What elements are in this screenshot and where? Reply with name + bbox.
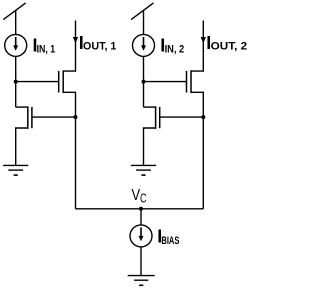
wire: I_IN,1 to lower transistor drain	[15, 56, 17, 107]
node A' dot	[142, 80, 146, 84]
current source I_IN,2 circle	[133, 34, 155, 56]
I_OUT,2 arrowhead	[201, 37, 206, 44]
node B dot	[74, 115, 78, 119]
ground (bottom) bar 2	[134, 279, 148, 281]
svg-text:BIAS: BIAS	[161, 235, 179, 247]
lower-right transistor gate bar	[159, 107, 161, 128]
ground (center) bar 1	[131, 164, 156, 166]
lower-left gate wire to node B	[32, 116, 76, 118]
I_IN,1 arrow tail	[15, 37, 17, 46]
lower-left transistor gate bar	[31, 107, 33, 128]
lower-left source jog down to ground	[16, 128, 28, 165]
ground (left) bar 1	[3, 164, 28, 166]
ground (center) bar 2	[136, 169, 151, 171]
lower-left transistor channel bar	[27, 106, 29, 129]
upper-left source jog + wire down to Vc bus	[63, 92, 75, 209]
I_BIAS arrow tail	[140, 227, 142, 236]
ground (left) bar 2	[8, 169, 23, 171]
I_IN,1 arrowhead	[13, 45, 18, 50]
upper-right drain jog + wire up to I_OUT,2	[191, 21, 203, 72]
I_OUT,1 arrowhead	[73, 37, 78, 44]
upper-right source jog + wire down to Vc bus	[191, 92, 203, 209]
ground (bottom) bar 1	[128, 275, 155, 277]
current source I_IN,1 circle	[5, 34, 27, 56]
lower-right source jog down to ground	[144, 128, 156, 165]
ground (left) bar 3	[14, 174, 18, 176]
lower-left transistor drain jog	[16, 106, 28, 108]
Vc bus wire	[76, 208, 204, 210]
gate wire upper-right transistor	[144, 81, 186, 83]
current source I_BIAS circle	[130, 225, 152, 247]
svg-text:IN, 1: IN, 1	[37, 43, 56, 55]
I_BIAS arrowhead	[139, 236, 144, 241]
wire Vc node to I_BIAS	[140, 209, 142, 225]
wire: slash to I_IN,2 source	[143, 10, 145, 35]
lower-right transistor channel bar	[155, 106, 157, 129]
svg-text:OUT, 2: OUT, 2	[211, 41, 247, 53]
supply slash (right)	[131, 3, 153, 20]
upper-right transistor gate bar	[186, 71, 188, 93]
svg-text:IN, 2: IN, 2	[165, 43, 185, 55]
wire: slash to I_IN,1 source	[15, 10, 17, 35]
node A dot	[14, 80, 18, 84]
wire: I_IN,2 to lower transistor drain	[143, 56, 145, 107]
upper-left drain jog + wire up to I_OUT,1	[63, 21, 75, 72]
lower-right transistor drain jog	[144, 106, 156, 108]
node B' dot	[201, 115, 205, 119]
gate wire upper-left transistor	[16, 81, 58, 83]
upper-left transistor gate bar	[58, 71, 60, 93]
lower-right gate wire to node B'	[160, 116, 204, 118]
supply slash (left)	[3, 3, 25, 20]
ground (bottom) bar 3	[139, 284, 143, 286]
upper-right transistor channel bar	[190, 70, 192, 93]
svg-text:OUT, 1: OUT, 1	[83, 41, 117, 53]
wire I_BIAS to bottom ground	[140, 247, 142, 276]
ground (center) bar 3	[141, 174, 145, 176]
I_IN,2 arrowhead	[141, 45, 146, 50]
I_IN,2 arrow tail	[143, 37, 145, 46]
svg-text:C: C	[140, 192, 147, 206]
upper-left transistor channel bar	[62, 70, 64, 93]
node Vc dot	[139, 207, 143, 211]
